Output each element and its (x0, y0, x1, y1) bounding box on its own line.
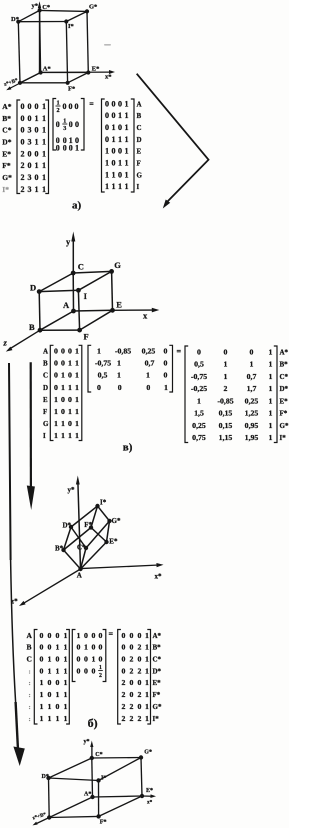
svg-text:0: 0 (63, 102, 67, 111)
svg-text:A: A (63, 300, 70, 310)
svg-text:3: 3 (28, 173, 32, 182)
svg-text:G: G (114, 260, 121, 270)
svg-text:0: 0 (146, 383, 150, 392)
svg-text::: : (29, 716, 31, 723)
svg-text:1: 1 (63, 666, 67, 675)
svg-text:1: 1 (63, 631, 67, 640)
svg-text:2: 2 (21, 161, 25, 170)
svg-text:1: 1 (61, 371, 65, 380)
svg-text:2: 2 (224, 384, 228, 393)
svg-text:0: 0 (77, 655, 81, 664)
svg-text:I*: I* (280, 434, 287, 442)
svg-text:0: 0 (84, 655, 88, 664)
svg-text:0: 0 (129, 690, 133, 699)
svg-text:G: G (137, 171, 143, 179)
svg-text:0: 0 (121, 655, 125, 664)
svg-text:0: 0 (39, 666, 43, 675)
svg-text:0: 0 (54, 371, 58, 380)
svg-text:0: 0 (137, 702, 141, 711)
svg-text:0: 0 (28, 161, 32, 170)
svg-text:0: 0 (92, 643, 96, 652)
svg-text:1: 1 (145, 655, 149, 664)
svg-text:1: 1 (63, 678, 67, 687)
svg-text:0: 0 (69, 102, 73, 111)
svg-text:0: 0 (129, 678, 133, 687)
svg-text:0: 0 (61, 395, 65, 404)
svg-text:I*: I* (153, 715, 160, 723)
svg-text:B: B (137, 112, 142, 120)
svg-text:1: 1 (75, 395, 79, 404)
svg-text:1,7: 1,7 (247, 384, 257, 393)
svg-text:y*: y* (84, 739, 90, 745)
svg-text:1: 1 (54, 407, 58, 416)
svg-text:2: 2 (137, 714, 141, 723)
svg-text:0: 0 (250, 347, 254, 356)
svg-text:1: 1 (125, 135, 129, 144)
svg-text:1: 1 (63, 690, 67, 699)
svg-text:1: 1 (61, 383, 65, 392)
svg-text:B: B (29, 322, 35, 332)
svg-text:0,25: 0,25 (245, 396, 259, 405)
svg-text:1: 1 (63, 702, 67, 711)
svg-text:2: 2 (21, 173, 25, 182)
svg-text:1: 1 (68, 383, 72, 392)
svg-text:0: 0 (112, 99, 116, 108)
svg-text:0,75: 0,75 (192, 433, 206, 442)
svg-text:1: 1 (68, 407, 72, 416)
svg-text:B*: B* (153, 644, 162, 652)
svg-text:A*: A* (2, 102, 11, 111)
svg-text:B*: B* (280, 361, 289, 369)
svg-text:2: 2 (21, 149, 25, 158)
svg-text:1: 1 (97, 347, 101, 356)
svg-text:1: 1 (39, 678, 43, 687)
svg-text:1: 1 (269, 384, 273, 393)
svg-text:D: D (137, 136, 142, 144)
svg-text:1: 1 (125, 147, 129, 156)
svg-text:0: 0 (92, 631, 96, 640)
svg-text:0: 0 (129, 643, 133, 652)
svg-text:1: 1 (117, 359, 121, 368)
svg-text:0: 0 (105, 135, 109, 144)
svg-text:G*: G* (280, 422, 289, 430)
svg-text:1: 1 (145, 631, 149, 640)
svg-text::: : (29, 680, 31, 687)
svg-text:G*: G* (2, 173, 12, 182)
svg-text:0: 0 (54, 359, 58, 368)
svg-text:2: 2 (121, 702, 125, 711)
svg-text:F: F (84, 331, 89, 341)
svg-text:I*: I* (100, 499, 107, 507)
svg-text:1: 1 (55, 714, 59, 723)
svg-text:1: 1 (35, 185, 39, 194)
svg-text:1: 1 (269, 409, 273, 418)
svg-text:F*: F* (153, 691, 161, 699)
svg-text:0: 0 (121, 643, 125, 652)
svg-text:0,7: 0,7 (247, 372, 257, 381)
svg-text:I*: I* (101, 776, 106, 782)
svg-text:0: 0 (35, 126, 39, 135)
svg-text:F: F (43, 408, 47, 416)
svg-text:0,25: 0,25 (142, 347, 156, 356)
svg-text:1: 1 (224, 372, 228, 381)
svg-text:1: 1 (39, 702, 43, 711)
svg-text:0: 0 (68, 347, 72, 356)
svg-text:1: 1 (145, 690, 149, 699)
svg-text:1: 1 (118, 135, 122, 144)
svg-text:0: 0 (224, 347, 228, 356)
svg-text:б): б) (88, 716, 98, 730)
svg-text:z: z (3, 338, 8, 348)
svg-text:0: 0 (99, 643, 103, 652)
svg-text:G*: G* (112, 517, 121, 525)
svg-text:F: F (137, 159, 141, 167)
svg-text:1: 1 (42, 114, 46, 123)
svg-text:0: 0 (35, 149, 39, 158)
svg-text:D: D (43, 384, 48, 392)
svg-text:0: 0 (118, 123, 122, 132)
svg-text:1: 1 (42, 161, 46, 170)
svg-text:D*: D* (63, 522, 72, 530)
svg-text:0: 0 (56, 143, 60, 152)
svg-text:0: 0 (21, 114, 25, 123)
svg-text:0: 0 (92, 666, 96, 675)
svg-text:1: 1 (112, 135, 116, 144)
svg-text:0: 0 (75, 102, 79, 111)
svg-text:1: 1 (117, 371, 121, 380)
svg-text:1: 1 (105, 182, 109, 191)
svg-text:0,5: 0,5 (98, 371, 108, 380)
svg-text:0: 0 (47, 643, 51, 652)
svg-text:1: 1 (112, 170, 116, 179)
svg-text:1: 1 (125, 182, 129, 191)
svg-text:0: 0 (47, 631, 51, 640)
svg-text:0: 0 (35, 102, 39, 111)
svg-text:x*: x* (105, 74, 112, 81)
svg-text:1: 1 (269, 372, 273, 381)
svg-text:-0,85: -0,85 (115, 347, 131, 356)
svg-text:E: E (137, 148, 142, 156)
svg-text:1: 1 (145, 702, 149, 711)
svg-text:C*: C* (2, 126, 11, 135)
svg-text:0: 0 (21, 102, 25, 111)
svg-text:0: 0 (63, 143, 67, 152)
svg-text:0: 0 (118, 170, 122, 179)
svg-text:3: 3 (28, 185, 32, 194)
svg-text:D*: D* (11, 16, 19, 23)
svg-text:1: 1 (61, 431, 65, 440)
svg-text:2: 2 (137, 666, 141, 675)
svg-text:=: = (177, 347, 182, 356)
svg-text:0: 0 (39, 655, 43, 664)
svg-text:C: C (43, 372, 48, 380)
svg-text:1: 1 (75, 407, 79, 416)
svg-text:A: A (43, 348, 48, 356)
svg-text:2: 2 (121, 678, 125, 687)
svg-text:=: = (109, 630, 114, 639)
svg-text:0: 0 (69, 120, 73, 129)
svg-text:1: 1 (35, 114, 39, 123)
svg-text:0: 0 (47, 690, 51, 699)
svg-text:2: 2 (99, 673, 102, 679)
svg-text:D*: D* (280, 385, 289, 393)
svg-text:0: 0 (55, 631, 59, 640)
svg-text:0,15: 0,15 (219, 421, 233, 430)
svg-text:0: 0 (35, 173, 39, 182)
svg-text:1: 1 (105, 170, 109, 179)
svg-text:1: 1 (42, 126, 46, 135)
svg-text:0: 0 (55, 655, 59, 664)
svg-text:F*: F* (2, 161, 11, 170)
svg-text:1: 1 (55, 643, 59, 652)
svg-text:1: 1 (269, 396, 273, 405)
svg-text:C: C (78, 262, 84, 272)
svg-text:0: 0 (21, 137, 25, 146)
svg-text:0: 0 (112, 147, 116, 156)
svg-text:D: D (30, 283, 36, 293)
svg-text:1: 1 (146, 371, 150, 380)
svg-text:1: 1 (39, 690, 43, 699)
svg-text:0: 0 (39, 643, 43, 652)
svg-text:D*: D* (153, 667, 162, 675)
svg-text:2: 2 (137, 643, 141, 652)
svg-text:A*: A* (84, 791, 91, 797)
svg-text:0: 0 (137, 655, 141, 664)
svg-text:0: 0 (118, 147, 122, 156)
svg-text:0: 0 (21, 126, 25, 135)
svg-text:0: 0 (54, 347, 58, 356)
svg-text:C*: C* (95, 752, 102, 758)
svg-text:x*: x* (155, 573, 163, 581)
svg-text:E*: E* (280, 397, 289, 405)
svg-text:2: 2 (121, 714, 125, 723)
svg-text:0: 0 (105, 111, 109, 120)
svg-text:1: 1 (269, 433, 273, 442)
svg-text:1: 1 (61, 419, 65, 428)
svg-text:-0,75: -0,75 (191, 372, 207, 381)
svg-text:C: C (27, 655, 32, 664)
svg-text:E: E (116, 300, 122, 310)
svg-text:z*: z* (11, 598, 18, 606)
svg-text:I: I (137, 183, 140, 191)
svg-text:2: 2 (21, 185, 25, 194)
svg-text:3: 3 (63, 125, 66, 132)
svg-text:A*: A* (153, 632, 162, 640)
svg-text:0: 0 (75, 120, 79, 129)
svg-text:C*: C* (280, 373, 289, 381)
svg-text:E*: E* (153, 679, 162, 687)
svg-text:2: 2 (129, 655, 133, 664)
svg-text:1: 1 (145, 678, 149, 687)
svg-text:0: 0 (164, 359, 168, 368)
svg-text:1: 1 (63, 714, 67, 723)
svg-text:0: 0 (39, 631, 43, 640)
svg-text:0: 0 (84, 666, 88, 675)
svg-text:0: 0 (61, 407, 65, 416)
svg-text:1: 1 (75, 371, 79, 380)
svg-text:1: 1 (54, 431, 58, 440)
svg-text:1: 1 (42, 185, 46, 194)
svg-text:1: 1 (99, 665, 102, 671)
svg-text:F*: F* (84, 521, 92, 529)
svg-text:0,15: 0,15 (219, 409, 233, 418)
svg-text:F*: F* (280, 410, 288, 418)
svg-text:1: 1 (35, 161, 39, 170)
svg-text:0: 0 (112, 158, 116, 167)
svg-text:1: 1 (54, 395, 58, 404)
svg-text:E*: E* (2, 149, 11, 158)
svg-text:1: 1 (47, 655, 51, 664)
svg-text:1: 1 (42, 149, 46, 158)
svg-text:1: 1 (118, 182, 122, 191)
svg-text:x*: x* (147, 800, 153, 806)
svg-text:B: B (27, 643, 32, 652)
svg-text:1,5: 1,5 (194, 409, 204, 418)
svg-text:0: 0 (69, 143, 73, 152)
svg-text:0: 0 (99, 631, 103, 640)
svg-text:0: 0 (56, 120, 60, 129)
svg-text:-0,75: -0,75 (95, 359, 111, 368)
svg-text:C*: C* (153, 656, 162, 664)
svg-text:1: 1 (105, 147, 109, 156)
svg-text::: : (29, 704, 31, 711)
svg-text:1: 1 (54, 419, 58, 428)
svg-text:1: 1 (92, 655, 96, 664)
svg-text:A*: A* (280, 348, 289, 356)
svg-text:G: G (43, 420, 49, 428)
svg-text:1: 1 (125, 158, 129, 167)
svg-text::: : (29, 668, 31, 675)
svg-text:1: 1 (39, 714, 43, 723)
svg-text:0: 0 (105, 123, 109, 132)
svg-text:1,95: 1,95 (245, 433, 259, 442)
svg-text:0,95: 0,95 (245, 421, 259, 430)
svg-text:D*: D* (42, 774, 49, 780)
svg-text:1: 1 (125, 111, 129, 120)
svg-text:2: 2 (121, 690, 125, 699)
svg-text:1,25: 1,25 (245, 409, 259, 418)
svg-text:=: = (89, 100, 94, 109)
svg-text:1: 1 (63, 655, 67, 664)
svg-text:1: 1 (112, 123, 116, 132)
svg-text:0: 0 (84, 631, 88, 640)
svg-text:1: 1 (224, 360, 228, 369)
svg-text:E*: E* (146, 788, 153, 794)
svg-text:0: 0 (54, 383, 58, 392)
svg-text:C*: C* (77, 544, 86, 552)
svg-text:F*: F* (68, 86, 75, 93)
svg-text:1: 1 (269, 347, 273, 356)
svg-text:0: 0 (61, 347, 65, 356)
svg-text:C*: C* (42, 4, 50, 11)
svg-text:1: 1 (145, 643, 149, 652)
svg-text:0: 0 (105, 99, 109, 108)
svg-text:1: 1 (47, 702, 51, 711)
svg-text:y*: y* (68, 486, 76, 494)
svg-text:1: 1 (269, 360, 273, 369)
svg-text:1,15: 1,15 (219, 433, 233, 442)
svg-text:1: 1 (145, 666, 149, 675)
svg-text:1: 1 (68, 359, 72, 368)
svg-text:A*: A* (43, 65, 51, 72)
svg-text:0,5: 0,5 (194, 360, 204, 369)
svg-text:D*: D* (2, 137, 11, 146)
svg-text:1: 1 (125, 170, 129, 179)
svg-text:0: 0 (118, 383, 122, 392)
svg-text:-0,85: -0,85 (217, 396, 233, 405)
svg-text:0: 0 (68, 419, 72, 428)
svg-text:1: 1 (164, 383, 168, 392)
svg-text:C: C (137, 124, 142, 132)
svg-text:1: 1 (75, 419, 79, 428)
svg-text:1: 1 (56, 99, 59, 106)
svg-text:1: 1 (125, 123, 129, 132)
svg-text:2: 2 (129, 666, 133, 675)
svg-text:0: 0 (77, 643, 81, 652)
svg-text:0: 0 (68, 395, 72, 404)
svg-text:A: A (77, 572, 82, 580)
svg-text:E: E (43, 396, 48, 404)
svg-text:1: 1 (75, 347, 79, 356)
svg-text:в): в) (123, 442, 133, 454)
svg-text:0: 0 (118, 99, 122, 108)
svg-text:1: 1 (250, 360, 254, 369)
svg-text:F*: F* (100, 820, 107, 826)
svg-text:3: 3 (28, 126, 32, 135)
svg-text:1: 1 (55, 690, 59, 699)
svg-text:0: 0 (164, 347, 168, 356)
svg-text:0,7: 0,7 (145, 359, 155, 368)
svg-text:1: 1 (269, 421, 273, 430)
svg-text:0: 0 (164, 371, 168, 380)
svg-text:A: A (137, 100, 142, 108)
svg-text:0: 0 (28, 114, 32, 123)
svg-text:B: B (43, 360, 48, 368)
svg-text:0: 0 (55, 678, 59, 687)
svg-text:1: 1 (42, 102, 46, 111)
svg-text:0: 0 (55, 702, 59, 711)
svg-text:y*: y* (32, 3, 39, 10)
svg-text:2: 2 (56, 107, 59, 114)
svg-text:1: 1 (105, 158, 109, 167)
svg-text:1: 1 (55, 666, 59, 675)
svg-text:1: 1 (47, 714, 51, 723)
svg-text:1: 1 (75, 359, 79, 368)
svg-text:0: 0 (28, 102, 32, 111)
svg-text:3: 3 (28, 137, 32, 146)
svg-text:0: 0 (28, 149, 32, 158)
svg-text:1: 1 (118, 111, 122, 120)
svg-text:I*: I* (2, 185, 9, 194)
svg-text:E*: E* (109, 538, 118, 546)
svg-text:1: 1 (112, 182, 116, 191)
svg-text:а): а) (72, 200, 82, 212)
svg-text:1: 1 (118, 158, 122, 167)
svg-text:0: 0 (129, 631, 133, 640)
svg-text:0,25: 0,25 (192, 421, 206, 430)
svg-text:1: 1 (75, 431, 79, 440)
svg-text:0: 0 (77, 666, 81, 675)
svg-text:0: 0 (121, 631, 125, 640)
svg-text:2: 2 (137, 690, 141, 699)
svg-text:0: 0 (68, 371, 72, 380)
svg-text:1: 1 (84, 643, 88, 652)
svg-text:0: 0 (137, 631, 141, 640)
svg-text:0: 0 (99, 655, 103, 664)
svg-text:0: 0 (197, 347, 201, 356)
svg-text:A: A (27, 631, 33, 640)
svg-text:0: 0 (61, 359, 65, 368)
